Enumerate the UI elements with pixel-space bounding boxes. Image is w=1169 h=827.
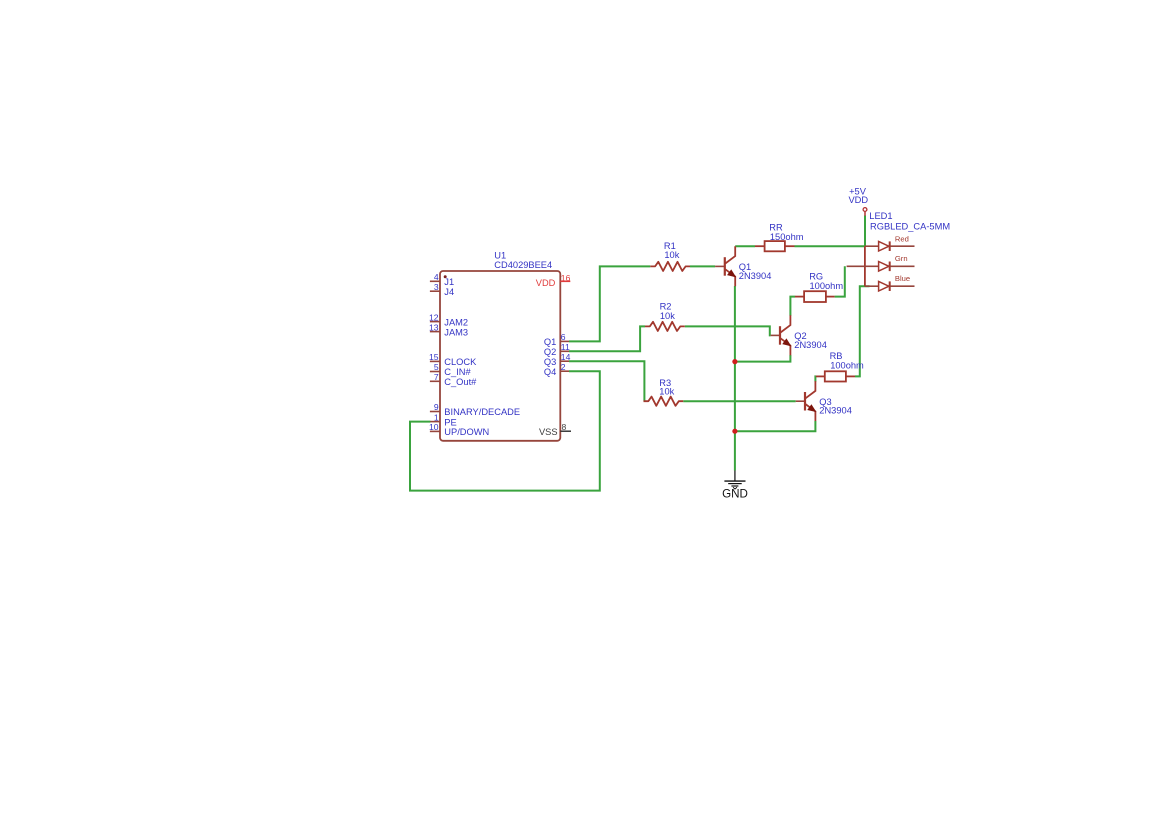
svg-text:7: 7 — [434, 372, 439, 382]
svg-text:U1: U1 — [494, 250, 506, 260]
wire Q3 collector to RB — [814, 376, 817, 381]
pin 7 C_Out# — [430, 372, 477, 387]
pin 11 Q2 out — [544, 342, 570, 357]
wire Q3 emitter to ground rail — [735, 421, 816, 431]
svg-text:Q2: Q2 — [544, 347, 556, 357]
svg-text:Red: Red — [895, 234, 909, 243]
svg-text:10k: 10k — [664, 250, 679, 260]
pin 9 BINARY/DECADE — [430, 402, 520, 417]
LED1 Red diode — [865, 234, 915, 251]
wire pin2 Q4 feedback loop to PE — [410, 371, 600, 490]
resistor R2 — [645, 302, 685, 332]
pin 10 UP/DOWN — [429, 422, 489, 437]
pin 14 Q3 out — [544, 352, 571, 367]
pin 12 JAM2 — [429, 312, 468, 327]
wire pin6 to R1 — [569, 266, 650, 341]
svg-text:JAM3: JAM3 — [444, 327, 468, 337]
wire R2 to Q2 base — [685, 326, 771, 335]
wire ground rail vertical — [734, 286, 736, 471]
svg-text:10k: 10k — [659, 387, 674, 397]
svg-text:VDD: VDD — [848, 195, 868, 205]
svg-text:LED1: LED1 — [869, 211, 892, 221]
transistor Q2 — [771, 315, 827, 355]
svg-text:16: 16 — [561, 273, 571, 283]
svg-text:100ohm: 100ohm — [810, 281, 844, 291]
svg-text:RG: RG — [809, 271, 823, 281]
svg-text:12: 12 — [429, 312, 439, 322]
svg-text:1: 1 — [434, 412, 439, 422]
transistor Q3 — [796, 381, 852, 421]
pin 5 C_IN# — [430, 362, 472, 377]
svg-text:13: 13 — [429, 322, 439, 332]
wire Q2 emitter to ground rail — [735, 355, 791, 362]
pin 4 J1 — [430, 272, 454, 287]
LED1 RGBLED_CA-5MM — [847, 211, 950, 291]
ground — [722, 471, 748, 501]
pin 6 Q1 out — [544, 332, 569, 347]
svg-text:VDD: VDD — [536, 278, 556, 288]
svg-text:BINARY/DECADE: BINARY/DECADE — [444, 407, 520, 417]
svg-text:PE: PE — [444, 417, 456, 427]
svg-text:2N3904: 2N3904 — [794, 340, 827, 350]
svg-text:2N3904: 2N3904 — [819, 406, 852, 416]
resistor R1 — [650, 241, 690, 271]
resistor RG — [795, 271, 843, 302]
LED1 Grn diode — [865, 254, 915, 271]
svg-text:10k: 10k — [660, 311, 675, 321]
svg-text:15: 15 — [429, 352, 439, 362]
svg-text:VSS: VSS — [539, 427, 558, 437]
wire R3 to Q3 base — [683, 400, 796, 402]
wire pin14 to R3 — [569, 361, 644, 401]
resistor R3 — [644, 378, 684, 406]
svg-text:3: 3 — [434, 282, 439, 292]
svg-text:2N3904: 2N3904 — [739, 271, 772, 281]
pin 13 JAM3 — [429, 322, 468, 337]
resistor RR — [755, 222, 804, 251]
pin 8 VSS — [539, 422, 571, 437]
transistor Q1 — [715, 246, 771, 286]
wire Q1 collector to RR — [735, 245, 755, 247]
svg-text:11: 11 — [561, 342, 570, 352]
svg-text:C_IN#: C_IN# — [444, 367, 471, 377]
wire +5V to LED anode — [864, 216, 866, 247]
svg-text:8: 8 — [562, 422, 567, 432]
pin 15 CLOCK — [429, 352, 477, 367]
svg-text:J1: J1 — [444, 277, 454, 287]
wire R1 to Q1 base — [690, 265, 715, 267]
svg-text:JAM2: JAM2 — [444, 317, 468, 327]
wire pin11 to R2 — [569, 326, 645, 351]
junction dot at ground rail / Q2 emitter — [732, 359, 737, 364]
svg-text:5: 5 — [434, 362, 439, 372]
svg-text:4: 4 — [434, 272, 439, 282]
svg-text:C_Out#: C_Out# — [444, 377, 477, 387]
power symbol +5V VDD — [848, 187, 868, 216]
resistor RB — [816, 351, 864, 382]
svg-text:150ohm: 150ohm — [770, 232, 804, 242]
svg-text:Blue: Blue — [895, 274, 910, 283]
svg-text:J4: J4 — [444, 287, 454, 297]
LED1 common anode bus — [864, 246, 866, 286]
wire Q2 collector to RG — [790, 297, 795, 316]
svg-text:Q1: Q1 — [544, 337, 556, 347]
svg-text:Grn: Grn — [895, 254, 908, 263]
junction dot at ground rail / Q3 emitter — [732, 429, 737, 434]
svg-text:2: 2 — [561, 362, 566, 372]
wire RR to LED Red node — [795, 245, 865, 247]
wire RB to LED Blue row — [855, 286, 870, 376]
svg-text:10: 10 — [429, 422, 439, 432]
wire RG to LED common anode pin — [835, 266, 845, 296]
svg-text:100ohm: 100ohm — [830, 360, 864, 370]
svg-text:Q3: Q3 — [544, 357, 556, 367]
pin 3 J4 — [430, 282, 454, 297]
svg-text:6: 6 — [561, 332, 566, 342]
LED1 Blue diode — [865, 274, 915, 291]
svg-text:GND: GND — [722, 488, 748, 501]
svg-text:RGBLED_CA-5MM: RGBLED_CA-5MM — [870, 222, 950, 232]
svg-text:UP/DOWN: UP/DOWN — [444, 427, 489, 437]
pin 2 Q4 out — [544, 362, 569, 377]
svg-text:CD4029BEE4: CD4029BEE4 — [494, 260, 552, 270]
svg-text:Q4: Q4 — [544, 367, 556, 377]
svg-text:CLOCK: CLOCK — [444, 357, 477, 367]
pin 16 VDD — [536, 273, 571, 288]
svg-text:9: 9 — [434, 402, 439, 412]
pin 1 PE — [430, 412, 457, 427]
IC U1 body — [440, 271, 560, 441]
LED1 common anode pin — [847, 265, 865, 267]
